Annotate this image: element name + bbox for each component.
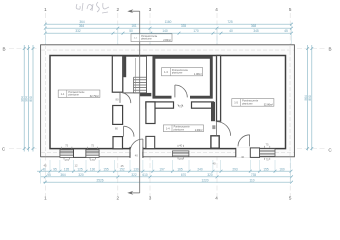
svg-text:piwniczne: piwniczne (141, 38, 152, 41)
svg-text:piwniczne: piwniczne (242, 102, 253, 105)
door D2 (lower door in thick wall) (124, 126, 134, 136)
mid-bottom room right wall upper (211, 102, 215, 121)
door dim 90 marker (212, 125, 215, 129)
svg-text:170: 170 (193, 29, 199, 33)
svg-text:130: 130 (90, 167, 96, 171)
svg-text:95: 95 (53, 167, 57, 171)
svg-text:110: 110 (249, 178, 254, 182)
top dimension line row 2 (45, 27, 291, 29)
svg-text:75: 75 (65, 143, 69, 147)
svg-text:368: 368 (251, 24, 257, 28)
svg-text:40: 40 (229, 29, 233, 33)
svg-text:80: 80 (115, 98, 119, 102)
svg-text:135: 135 (64, 167, 70, 171)
svg-text:725: 725 (227, 20, 233, 24)
room label L4 (mid-bottom room) (163, 125, 203, 132)
svg-text:50: 50 (129, 29, 133, 33)
svg-text:125: 125 (77, 167, 83, 171)
svg-text:2526: 2526 (96, 178, 103, 182)
dimension ticks top (44, 23, 293, 35)
entrance right pier stub (146, 136, 155, 148)
svg-text:40: 40 (135, 154, 139, 158)
svg-text:2: 2 (117, 195, 120, 200)
stair up line (134, 58, 136, 93)
svg-text:12: 12 (74, 164, 78, 168)
svg-text:1-4: 1-4 (166, 126, 170, 130)
svg-text:5: 5 (289, 195, 292, 200)
svg-text:piwniczne: piwniczne (172, 72, 183, 75)
svg-text:1-3: 1-3 (164, 70, 168, 74)
svg-text:1: 1 (44, 7, 47, 12)
exterior door opening D7 (236, 148, 251, 158)
svg-text:1220: 1220 (201, 178, 208, 182)
inner wall face / interior (50, 56, 286, 149)
svg-text:75: 75 (91, 143, 95, 147)
svg-text:890: 890 (29, 96, 33, 102)
svg-text:170: 170 (90, 158, 95, 162)
stairs (134, 77, 147, 93)
left room right wall stub at bottom (113, 137, 123, 149)
room label L3 (mid-top room) (162, 68, 203, 77)
svg-text:piwniczne: piwniczne (174, 128, 185, 131)
svg-text:335: 335 (181, 24, 187, 28)
dimension ticks sides (23, 47, 313, 150)
entrance door arc D6 (130, 139, 143, 152)
left room right wall upper segment (white-cored) (112, 56, 122, 92)
door D7 arc (238, 135, 250, 147)
svg-text:75: 75 (265, 142, 269, 146)
svg-text:piwniczne: piwniczne (68, 94, 79, 97)
svg-text:152: 152 (119, 167, 125, 171)
svg-text:1: 1 (44, 195, 47, 200)
svg-text:40: 40 (42, 167, 46, 171)
left room right wall pier between doors (113, 106, 123, 125)
svg-text:320: 320 (207, 173, 213, 177)
svg-text:165: 165 (177, 167, 183, 171)
svg-text:32.86m²: 32.86m² (264, 104, 273, 107)
top dimension line row 3 (45, 32, 291, 34)
dimension numbers top (75, 20, 288, 33)
svg-text:B: B (328, 47, 331, 52)
top dimension line row 1 (45, 23, 291, 25)
svg-text:80: 80 (115, 127, 119, 131)
right vertical dimension lines (307, 45, 309, 151)
svg-text:1-5: 1-5 (234, 100, 238, 104)
svg-text:964: 964 (25, 96, 29, 102)
mid-top room walls (154, 57, 211, 97)
svg-text:155: 155 (263, 167, 269, 171)
svg-text:3: 3 (149, 195, 152, 200)
section label box 1-1 (stair room label L2) (131, 34, 172, 42)
bottom dimension line row 3 (43, 181, 291, 183)
svg-text:240: 240 (197, 167, 203, 171)
tiny gray dim labels near windows/doors (43, 98, 269, 168)
stair shaft bottom wall (140, 93, 152, 96)
bottom dimension line row 1 (37, 170, 291, 172)
svg-text:2: 2 (117, 7, 120, 12)
mid-bottom room top wall right part (192, 102, 214, 108)
svg-text:4: 4 (215, 195, 218, 200)
stair shaft (123, 56, 147, 93)
window dim ticks (62, 145, 270, 160)
svg-text:40: 40 (179, 144, 183, 148)
room label L1 (left room) (58, 90, 100, 98)
grid numbers bottom (44, 195, 292, 200)
dimension numbers bottom (42, 167, 285, 182)
doorway ticks between mid rooms (178, 105, 183, 107)
svg-text:75: 75 (266, 157, 270, 161)
svg-text:332: 332 (75, 29, 81, 33)
svg-text:1-1: 1-1 (61, 92, 65, 96)
svg-text:140: 140 (162, 29, 168, 33)
pier between W1 W2 (74, 149, 86, 158)
window W4 (260, 149, 276, 157)
section arrowhead top (127, 9, 133, 13)
cyan extension lines top (45, 23, 291, 45)
svg-text:293: 293 (232, 167, 238, 171)
svg-text:160: 160 (279, 167, 285, 171)
dimension ticks bottom (39, 170, 293, 184)
door D5 (into right room) (216, 122, 230, 136)
svg-text:32.79m²: 32.79m² (90, 95, 99, 98)
svg-text:322: 322 (131, 173, 137, 177)
svg-text:155: 155 (103, 167, 109, 171)
svg-text:5: 5 (289, 7, 292, 12)
grid numbers top (44, 7, 292, 12)
svg-text:130: 130 (133, 167, 139, 171)
left vertical dimension lines (23, 45, 25, 152)
svg-text:890: 890 (308, 95, 312, 101)
window W1 (60, 150, 74, 158)
svg-text:3: 3 (149, 7, 152, 12)
pencil scribbles top-left (76, 2, 109, 13)
svg-text:1.08m²: 1.08m² (194, 73, 202, 76)
svg-text:45: 45 (120, 164, 124, 168)
svg-text:45: 45 (284, 29, 288, 33)
svg-text:B: B (2, 47, 5, 52)
wall stub below door D5 (211, 136, 219, 148)
stair shaft left wall (123, 56, 126, 77)
bottom dimension line row 2 (41, 176, 292, 178)
svg-text:364: 364 (60, 173, 66, 177)
window W2 (86, 150, 99, 158)
svg-text:4: 4 (215, 7, 218, 12)
door D3 (175, 85, 187, 97)
svg-text:197: 197 (159, 167, 165, 171)
right room left wall (white-cored) (217, 56, 221, 122)
svg-text:161: 161 (131, 24, 137, 28)
svg-text:45: 45 (43, 164, 47, 168)
mid-bottom room left wall (146, 102, 155, 124)
pier left of W4 (250, 148, 259, 158)
svg-text:364: 364 (79, 24, 85, 28)
svg-text:320: 320 (78, 173, 84, 177)
svg-text:670: 670 (181, 173, 187, 177)
side dimension numbers (rotated) (20, 95, 312, 102)
section arrowhead bottom (127, 191, 133, 195)
grid letters (2, 47, 333, 153)
svg-text:95: 95 (47, 173, 51, 177)
svg-text:1.08m²: 1.08m² (195, 129, 203, 132)
mid-bottom room top wall left part (146, 102, 174, 108)
svg-text:40: 40 (212, 162, 216, 166)
window W3 (173, 151, 189, 157)
svg-text:170: 170 (178, 157, 183, 161)
room label L5 (right room) (232, 99, 274, 107)
svg-text:2.80m²: 2.80m² (163, 39, 171, 42)
svg-text:170: 170 (64, 158, 69, 162)
svg-text:40: 40 (241, 155, 245, 159)
entrance jambs (130, 147, 143, 158)
svg-text:1160: 1160 (165, 20, 172, 24)
svg-text:735: 735 (251, 173, 257, 177)
door D1 (upper door in thick wall) (120, 92, 131, 103)
outer wall boundary (41, 45, 295, 157)
svg-text:610: 610 (142, 173, 148, 177)
cyan extension lines bottom (41, 159, 291, 184)
svg-text:345: 345 (253, 29, 259, 33)
wall centerline dashed (41, 45, 294, 157)
section cut line 1-1 (129, 11, 140, 193)
entrance opening in bottom wall (130, 147, 143, 158)
grid axis dashed lines (9, 13, 325, 196)
